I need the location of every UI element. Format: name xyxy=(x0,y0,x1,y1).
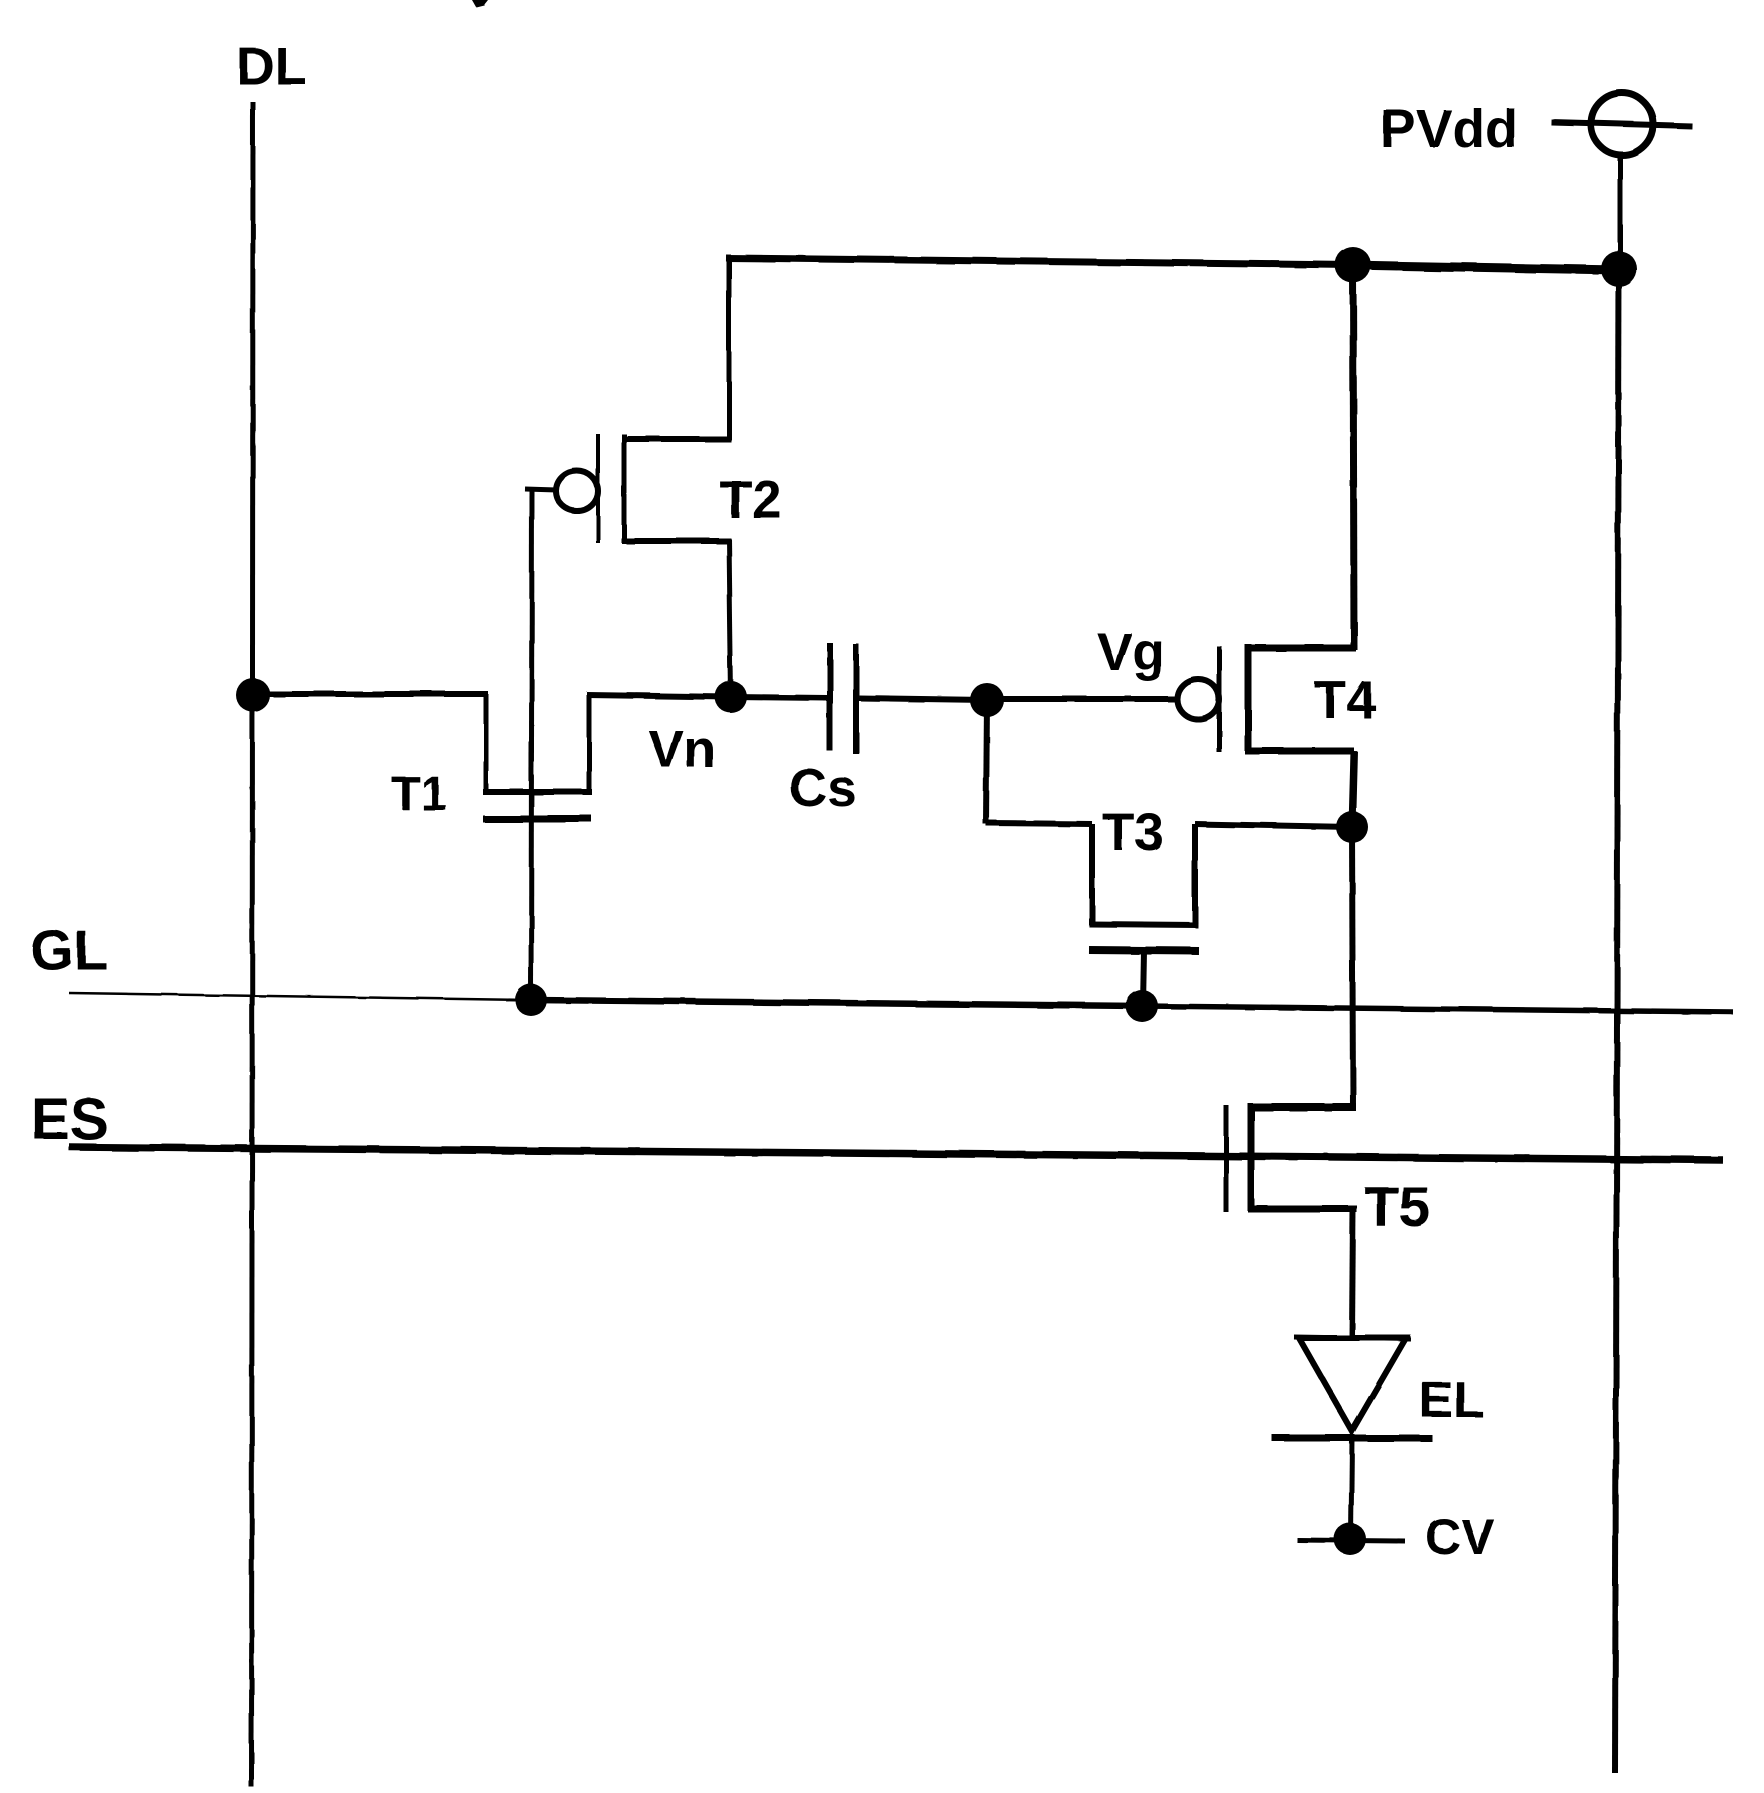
svg-text:T1: T1 xyxy=(391,768,447,821)
svg-text:PVdd: PVdd xyxy=(1380,99,1518,159)
svg-text:T3: T3 xyxy=(1102,803,1164,862)
svg-text:Vg: Vg xyxy=(1097,623,1165,682)
svg-text:GL: GL xyxy=(30,918,108,981)
svg-text:EL: EL xyxy=(1419,1371,1484,1428)
svg-text:Vn: Vn xyxy=(648,720,716,779)
svg-text:T4: T4 xyxy=(1314,671,1376,730)
svg-text:DL: DL xyxy=(236,37,307,96)
svg-text:CV: CV xyxy=(1425,1509,1495,1565)
svg-text:T5: T5 xyxy=(1364,1175,1431,1239)
svg-text:Cs: Cs xyxy=(789,759,857,818)
svg-text:ES: ES xyxy=(31,1087,108,1152)
svg-text:T2: T2 xyxy=(719,470,782,530)
